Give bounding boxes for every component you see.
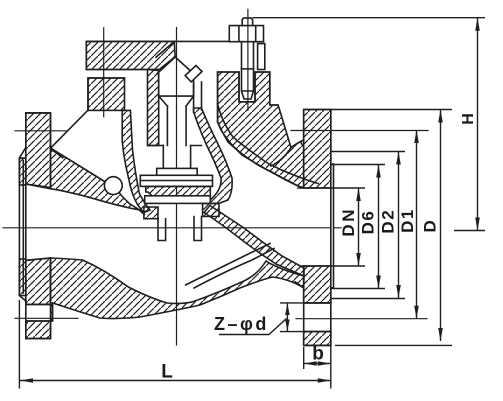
stud shank (242, 42, 254, 99)
D bottom extension line (335, 344, 452, 346)
ball (104, 177, 122, 195)
left flange outline (26, 113, 51, 339)
disc plate mid line (140, 180, 212, 182)
right flange bottom hatched (304, 332, 331, 346)
left flange raised face outline (19, 148, 25, 302)
throat left wall (158, 219, 166, 241)
right flange top bolt centerline (291, 130, 428, 132)
cover notch diagonal (156, 41, 174, 57)
left flange bottom bolt centerline (15, 317, 78, 319)
svg-text:DN: DN (339, 207, 358, 237)
seat ring left hatched (144, 207, 158, 219)
b left extension line (303, 347, 305, 369)
svg-text:D1: D1 (398, 208, 417, 233)
neck wall inner edge (218, 122, 304, 188)
inlet bore lower line (26, 258, 51, 260)
right flange mid hatched (304, 266, 331, 303)
left flange bottom block hatched (26, 321, 51, 339)
cover outline (86, 41, 229, 69)
svg-text:D6: D6 (359, 210, 378, 235)
right flange upper hatched (304, 110, 331, 189)
bonnet bolt centerline left (103, 28, 105, 117)
neck wall interface edge (218, 104, 318, 184)
side bar (258, 44, 265, 70)
cover plate hatched (sectioned left half) (86, 41, 175, 70)
svg-text:D2: D2 (379, 209, 398, 234)
dimension D6 (378, 165, 380, 289)
D6 bottom extension line (331, 288, 385, 290)
guide leg right outline (194, 82, 202, 112)
DN top extension line (331, 187, 365, 189)
dimension DN (358, 188, 360, 266)
body inlet wedge hatched (51, 148, 146, 215)
stem lower wide (163, 146, 190, 169)
dimension b (304, 363, 331, 365)
D top extension line (331, 109, 452, 111)
left flange raised face upper hatched (19, 158, 25, 185)
svg-text:b: b (312, 344, 324, 365)
bonnet flange left block outline (88, 78, 125, 110)
svg-text:D: D (420, 220, 439, 232)
dome left wall hatched (122, 110, 150, 212)
dimension L (20, 380, 331, 382)
svg-text:Z–φd: Z–φd (214, 314, 269, 334)
bowl shell hatched (51, 258, 305, 321)
dimension D (440, 110, 442, 342)
guide boss (159, 74, 194, 96)
H top extension line (253, 17, 485, 19)
body upper wall diagonal (51, 148, 117, 189)
seat ring right hatched (203, 203, 219, 216)
tilted tab (185, 66, 202, 82)
L left extension line (18, 300, 20, 389)
L right extension line (330, 345, 332, 388)
bowl inner far edge A (186, 244, 270, 285)
disc bottom plate (145, 196, 211, 204)
guide funnel (159, 96, 194, 106)
bonnet bolt centerline right (247, 9, 249, 110)
shank thread line (242, 68, 254, 70)
right flange raised face (331, 164, 334, 288)
right flange outline (304, 110, 331, 346)
stud bolt nut (229, 26, 263, 42)
valve vertical centerline (176, 28, 178, 346)
stem upper (167, 106, 186, 145)
D6 top extension line (331, 164, 385, 166)
outlet bore upper line (298, 187, 331, 189)
notch floor curve (291, 140, 304, 148)
H bottom extension line (454, 230, 485, 232)
disc gasket hatched (146, 186, 211, 195)
dome outer wall diagonal (51, 110, 89, 148)
throat right wall (194, 217, 202, 241)
left flange body lower hatched (26, 258, 51, 304)
inlet bore upper line (26, 184, 51, 189)
Z-phi-d small dimension (286, 304, 288, 332)
stem shoulder line (148, 145, 202, 147)
bowl inner far edge B (194, 249, 274, 289)
pipe centerline (3, 227, 341, 229)
left flange raised face lower hatched (19, 259, 25, 296)
svg-text:L: L (161, 362, 173, 383)
D2 bottom extension line (331, 298, 405, 300)
D2 top extension line (331, 151, 405, 153)
partition wall hatched (204, 206, 304, 277)
Z-phi-d leader (219, 319, 287, 335)
guide chevron cap (157, 57, 194, 74)
right flange bolt hole centerline (296, 318, 427, 320)
hub fillet line (295, 282, 304, 288)
dimension D1 (416, 130, 418, 319)
hub top slope (51, 149, 63, 158)
guide leg left hatched (148, 70, 159, 146)
hub wedge edge (271, 148, 291, 167)
bonnet flange left block hatched (88, 78, 125, 110)
disc top plate (140, 175, 212, 186)
disc collar (157, 168, 198, 175)
left flange top bolt centerline (15, 130, 66, 132)
right flange bolt hole (304, 303, 331, 332)
Z-phi-d extension lines (280, 302, 331, 304)
DN bottom extension line (331, 265, 365, 267)
outlet bore lower line (300, 265, 331, 267)
nut bottom line (229, 41, 263, 43)
stud top end (242, 18, 252, 26)
dome right wall hatched (194, 108, 233, 203)
left flange body upper hatched (26, 113, 51, 188)
left flange bolt hole (26, 304, 53, 321)
dimension D2 (398, 152, 400, 299)
bonnet flange right outline (218, 72, 291, 148)
air notch between flanges (270, 98, 304, 148)
bonnet flange right and neck wall hatched (218, 72, 304, 188)
dimension H (477, 18, 479, 231)
svg-text:H: H (460, 113, 477, 125)
